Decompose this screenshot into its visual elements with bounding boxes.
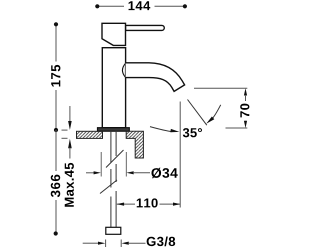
G3/8 end fitting [106, 227, 121, 234]
base flange [98, 128, 130, 132]
dimension O34 left arrow [86, 172, 94, 174]
dimension 175 label [51, 65, 60, 87]
dimension 144 label [129, 1, 151, 10]
spout [126, 63, 185, 92]
faucet handle lever [126, 25, 165, 30]
G3/8 dimension left arrow [83, 242, 98, 244]
G3/8 label [147, 236, 176, 246]
spout root intersection arc [122, 63, 125, 77]
deck right hatched block [126, 131, 143, 158]
deck left hatched block [77, 131, 103, 138]
vertical reference line from spout outlet [179, 102, 181, 208]
dimension 110 line left [117, 203, 135, 205]
dimension 70 arrows [244, 88, 247, 95]
pipe break symbol upper [106, 150, 124, 168]
G3/8 dimension right arrow [122, 242, 129, 245]
dimension 70 top reference line [194, 87, 247, 89]
Max.45 dimension lower arrow [68, 139, 72, 148]
35 degree diagonal leg [188, 100, 207, 126]
dimension 144 line [97, 5, 185, 7]
supply shank pipe [111, 131, 116, 228]
dimension 110 line right [160, 203, 181, 205]
35 degree right arc arrow [212, 105, 221, 119]
dimension 110 label [137, 198, 158, 207]
dimension 144 end dots [95, 4, 99, 8]
faucet handle cap block [102, 23, 126, 45]
dimension 366 label [51, 175, 61, 197]
Max.45 extension ticks [62, 129, 68, 131]
dimension 175 end dots [54, 22, 58, 26]
pipe break symbol lower [100, 180, 117, 194]
Max.45 label [65, 163, 74, 207]
dimension 70 label [240, 104, 249, 118]
faucet body [102, 48, 125, 128]
dimension O34 right arrow and leader [126, 171, 133, 174]
dimension 175 line [55, 24, 57, 130]
dimension 366 line [55, 130, 57, 234]
G3/8 dimension ticks [105, 240, 107, 248]
dimension 366 end dot [54, 231, 58, 235]
dimension 70 bottom reference line [226, 127, 248, 129]
Max.45 dimension upper arrow [69, 106, 71, 122]
dimension O34 label [151, 168, 177, 178]
35 degree label [183, 128, 202, 137]
35 degree left arc arrow [150, 127, 172, 132]
dimension O34 extension lines [100, 152, 102, 177]
